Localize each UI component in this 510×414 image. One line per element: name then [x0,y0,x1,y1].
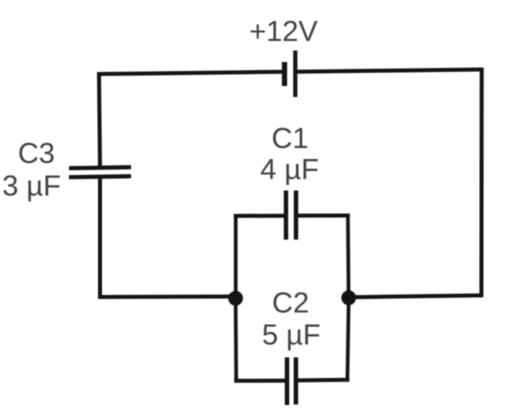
svg-text:5 µF: 5 µF [262,320,321,352]
wire C2 bottom-left horizontal [234,379,285,383]
wire bottom-right horizontal [349,295,482,297]
wire C1 top-right horizontal [298,214,350,218]
wire top horizontal right segment [295,70,482,72]
node junction right [341,290,356,305]
battery B1 plate short (negative) [282,62,287,86]
capacitor C3 plate top [69,167,131,168]
wire left vertical upper [99,72,100,168]
svg-text:C2: C2 [272,288,309,320]
svg-text:3 µF: 3 µF [2,171,61,203]
wire right vertical [479,68,483,298]
svg-text:4 µF: 4 µF [260,154,319,186]
battery B1 plate tall (positive) [293,51,297,98]
wire top horizontal left segment [99,72,284,74]
wire C1 branch right vertical [346,216,350,298]
node junction left [228,291,243,306]
wire C2 bottom-right horizontal [298,378,349,383]
wire C2 branch right vertical [347,298,348,380]
svg-text:C1: C1 [271,123,308,155]
capacitor C1 plate right [294,191,298,240]
wire C1 branch left vertical [234,216,238,299]
capacitor C2 plate right [294,357,299,404]
wire C2 branch left vertical [234,299,238,381]
wire bottom-left horizontal [98,295,236,300]
capacitor C2 plate left [285,357,290,405]
svg-text:C3: C3 [18,138,55,170]
capacitor C1 plate left [284,191,288,240]
wire left vertical lower [98,177,102,297]
wire C1 top-left horizontal [234,214,284,218]
capacitor C3 plate bottom [69,176,131,177]
svg-text:+12V: +12V [249,16,318,48]
